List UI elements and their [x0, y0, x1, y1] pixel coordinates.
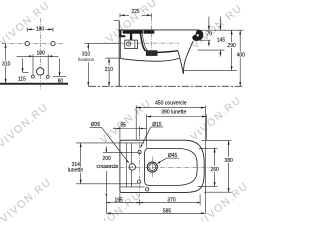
svg-text:210: 210	[105, 67, 114, 73]
back vertical line	[125, 143, 127, 187]
svg-text:380: 380	[224, 158, 233, 164]
fixation bracket	[125, 40, 138, 49]
extension 390 left	[146, 119, 148, 148]
drain circle rear	[37, 68, 44, 75]
V-left line	[178, 51, 183, 74]
rim top line	[120, 29, 198, 31]
svg-text:165: 165	[115, 198, 124, 204]
fixation bolt circle	[127, 42, 131, 46]
dim 180	[27, 26, 53, 32]
drain plug circle bottom	[146, 188, 149, 191]
fixing hole left	[25, 42, 29, 46]
inlet circle Ø35	[129, 164, 135, 170]
floor line left	[0, 83, 68, 85]
bowl back wall	[140, 30, 146, 51]
bowl bottom	[157, 51, 178, 53]
svg-text:400: 400	[237, 52, 246, 58]
dim 80	[53, 58, 66, 84]
seat hole top	[138, 150, 141, 153]
svg-text:80: 80	[58, 78, 64, 84]
back face below bracket	[119, 37, 121, 58]
svg-text:70: 70	[207, 32, 213, 38]
svg-text:115: 115	[18, 76, 26, 82]
svg-text:225: 225	[131, 9, 140, 15]
dim 145	[217, 17, 226, 57]
dim 100	[17, 51, 59, 59]
bowl back wall inner line	[142, 34, 148, 51]
seat hole bottom	[138, 180, 141, 183]
watermark VIVON.RU tiles	[0, 0, 251, 238]
vertical centerline	[39, 18, 41, 90]
dim 380	[202, 140, 234, 192]
dim 70	[207, 17, 213, 47]
svg-text:310: 310	[2, 62, 11, 68]
plan horizontal centerline	[104, 166, 217, 168]
svg-text:fixations: fixations	[78, 57, 95, 62]
label Ø15 with leader	[140, 122, 163, 148]
plan outline	[120, 140, 204, 192]
dim 115	[18, 58, 29, 82]
back ledge bottom line	[120, 186, 145, 188]
side horizontal centerline	[104, 42, 179, 44]
svg-text:85: 85	[120, 122, 126, 128]
svg-text:450 couvercle: 450 couvercle	[155, 101, 187, 107]
small hole left	[31, 75, 34, 78]
svg-text:585: 585	[163, 208, 172, 214]
dim 210	[104, 58, 120, 86]
svg-text:260: 260	[210, 167, 219, 173]
seat/lid section bar	[123, 30, 155, 33]
couvercle back edge	[130, 143, 132, 187]
small hole right	[46, 75, 49, 78]
svg-text:390 lunette: 390 lunette	[161, 110, 186, 116]
extension 450/585 right	[204, 110, 206, 214]
svg-text:100: 100	[37, 51, 46, 57]
drain pocket (dark)	[146, 50, 158, 56]
ref line 145	[198, 49, 225, 51]
svg-text:145: 145	[217, 37, 226, 43]
svg-text:200: 200	[102, 156, 111, 162]
fixing hole right	[51, 42, 55, 46]
ref line 290	[184, 69, 238, 71]
svg-text:370: 370	[167, 198, 176, 204]
dim 314 lunette	[67, 143, 138, 184]
wall line	[118, 21, 120, 87]
dim 290	[227, 30, 237, 70]
rim extension line right	[197, 29, 243, 31]
front rim beak	[193, 30, 203, 41]
label Ø45 with leader	[157, 153, 179, 164]
bowl outline	[145, 148, 198, 185]
svg-text:couvercle: couvercle	[96, 164, 118, 170]
dim 450 couvercle	[136, 101, 205, 110]
drain circle Ø45	[147, 162, 157, 172]
extension lines from 100-holes	[32, 58, 34, 74]
plan vertical centerline	[139, 136, 141, 198]
extension 390 right	[206, 119, 208, 140]
dim 200 couvercle	[96, 146, 138, 213]
dim 310 left	[1, 44, 11, 84]
dim 310 fixations	[77, 43, 119, 86]
svg-text:lunette: lunette	[68, 168, 83, 174]
svg-text:180: 180	[36, 26, 45, 32]
dim 165 and 370	[106, 195, 200, 206]
dim 85	[113, 122, 147, 140]
dim 225	[120, 9, 151, 18]
svg-text:290: 290	[227, 43, 236, 49]
label Ø35 with leader	[90, 122, 130, 163]
front face / V-right	[183, 41, 193, 74]
underside line	[120, 58, 179, 61]
back step	[120, 30, 126, 37]
side vertical centerline (drain axis)	[150, 17, 152, 57]
floor line right (chain)	[89, 85, 245, 87]
dim 585	[106, 208, 205, 214]
ref line 70	[196, 39, 211, 41]
dim 390 lunette	[147, 110, 207, 119]
extension 450 left	[135, 110, 137, 140]
dim 260	[198, 148, 220, 186]
horizontal centerline through fixing holes	[2, 43, 63, 45]
back ledge top line	[76, 142, 144, 144]
dim 400	[235, 30, 246, 86]
